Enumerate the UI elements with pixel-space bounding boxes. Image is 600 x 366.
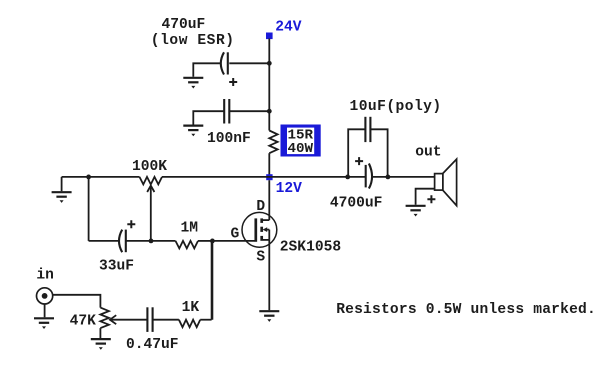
wire 33uF right to 1M [126, 240, 176, 242]
wire main line mid section [162, 176, 365, 178]
junction rail-100nF [267, 109, 272, 114]
svg-text:100nF: 100nF [207, 131, 251, 147]
transistor Q1 2SK1058 [242, 212, 277, 247]
ground at input jack [34, 318, 54, 329]
wire resistor bottom to 12V node [268, 153, 270, 175]
wire 100nF left to ground [193, 111, 224, 124]
capacitor C 470uF plates [227, 52, 229, 74]
capacitor C 33uF plates [119, 230, 122, 253]
svg-text:D: D [256, 199, 265, 215]
svg-text:470uF: 470uF [162, 17, 206, 33]
svg-text:4700uF: 4700uF [330, 195, 383, 211]
svg-text:12V: 12V [276, 181, 303, 197]
polarity plus speaker [427, 195, 435, 203]
svg-text:24V: 24V [275, 20, 302, 36]
wire 470uF left to ground [193, 63, 220, 77]
wire 100nF to rail [230, 110, 269, 112]
wire 4700uF to speaker [372, 176, 435, 178]
svg-text:40W: 40W [288, 141, 314, 157]
wire drain from 12V node [268, 180, 270, 220]
wire feedback tap down to 33uF [88, 177, 90, 241]
wire left end down to ground [61, 177, 63, 191]
svg-text:2SK1058: 2SK1058 [280, 239, 341, 255]
junction rail-470uF [267, 61, 272, 66]
svg-text:100K: 100K [132, 159, 167, 175]
node 12V square [266, 174, 272, 180]
svg-text:1M: 1M [181, 221, 199, 237]
connector input RCA jack [37, 288, 53, 304]
wire main output line left section [62, 176, 140, 178]
capacitor C 0.47uF plates [146, 307, 148, 332]
ground at speaker [406, 206, 426, 217]
wire wiper to 0.47uF [110, 319, 147, 321]
wire 470uF to rail [229, 62, 269, 64]
wire 1M to gate node [198, 240, 212, 242]
svg-text:S: S [256, 249, 265, 265]
junction gate node [210, 239, 215, 244]
ground at pot [91, 339, 111, 350]
svg-text:(low ESR): (low ESR) [151, 33, 235, 49]
polarity plus 470uF [229, 78, 237, 86]
capacitor C 4700uF plates [365, 165, 367, 188]
svg-text:Resistors 0.5W unless marked.: Resistors 0.5W unless marked. [336, 302, 596, 318]
wire source to ground [268, 240, 270, 310]
capacitor C 10uF poly bypass loop [348, 129, 365, 177]
wire 1K to gate node riser [200, 319, 211, 321]
svg-text:out: out [415, 145, 441, 161]
wire 33uF left [89, 240, 119, 242]
capacitor C 100nF plates [223, 99, 225, 124]
wire gate node down to 1K [211, 241, 213, 320]
value box 15R 40W [281, 125, 321, 158]
wire speaker return to ground [416, 189, 435, 205]
ground at 470uF [183, 78, 203, 89]
wire rail 24V to resistor top [268, 39, 270, 131]
junction 10uF left [345, 175, 350, 180]
potentiometer 47K zigzag [100, 308, 109, 329]
svg-text:33uF: 33uF [99, 259, 134, 275]
polarity plus 4700uF [355, 157, 363, 165]
wire jack to pot top [53, 295, 101, 308]
junction wiper-1M [149, 239, 154, 244]
node 24V supply square [266, 33, 273, 40]
junction feedback tap [86, 175, 91, 180]
resistor 1M zigzag [176, 241, 199, 249]
ground at source [259, 311, 279, 322]
svg-text:1K: 1K [182, 300, 200, 316]
resistor 1K zigzag [179, 320, 200, 328]
wire pot bottom to ground [99, 328, 101, 338]
svg-text:0.47uF: 0.47uF [126, 337, 179, 353]
svg-text:10uF(poly): 10uF(poly) [350, 99, 442, 115]
wire jack to ground [44, 304, 46, 317]
polarity plus 33uF [127, 220, 135, 228]
svg-text:47K: 47K [70, 313, 97, 329]
svg-text:in: in [36, 268, 54, 284]
trimpot 100K zigzag [140, 177, 163, 185]
trimpot 100K wiper arrow [147, 186, 154, 192]
svg-text:G: G [231, 226, 240, 242]
ground at left bias divider [52, 192, 72, 203]
junction 10uF right [386, 175, 391, 180]
speaker LS1 [435, 159, 457, 206]
ground at 100nF [183, 126, 203, 137]
potentiometer 47K wiper arrow [110, 315, 116, 324]
wire gate node to MOSFET gate [212, 240, 254, 242]
wire 0.47uF to 1K [153, 319, 179, 321]
resistor 15R 40W zigzag [269, 131, 277, 154]
